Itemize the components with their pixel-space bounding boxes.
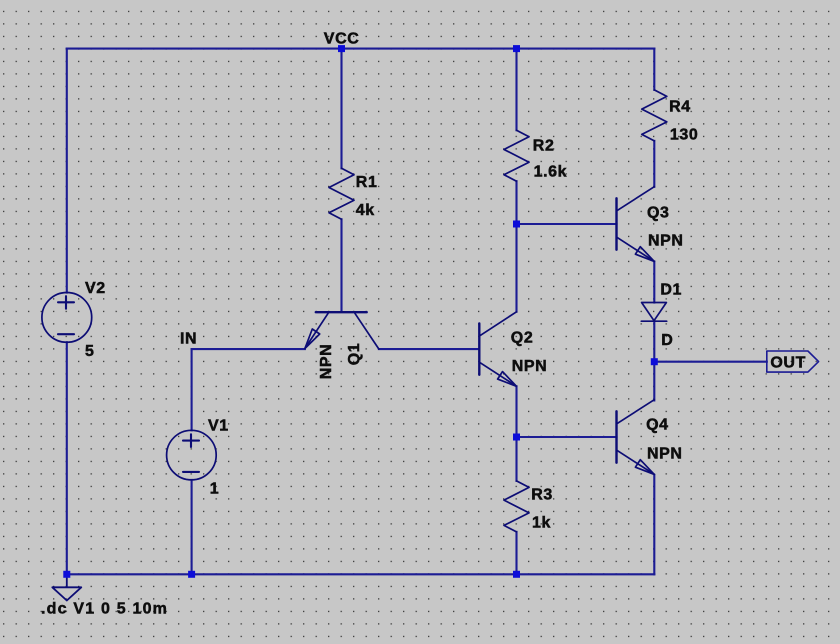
svg-text:R2: R2 [533, 137, 555, 154]
resistor R1 [329, 168, 354, 219]
svg-text:NPN: NPN [647, 445, 683, 462]
svg-text:5: 5 [85, 343, 95, 360]
wire left rail upper [66, 49, 68, 293]
resistor R3 [504, 481, 529, 532]
svg-text:Q3: Q3 [647, 205, 670, 222]
wire Q3 emitter to D1 [653, 262, 655, 303]
junction Q4 base node [513, 434, 520, 441]
port OUT outline [767, 351, 819, 372]
svg-text:130: 130 [670, 126, 699, 143]
wire Q3 base [517, 223, 617, 225]
transistor Q1 body [316, 311, 367, 313]
svg-text:R4: R4 [669, 98, 691, 115]
wire bottom rail [67, 573, 655, 575]
wire R1 to Q1 base [340, 219, 342, 311]
voltage source V1 [167, 430, 217, 480]
svg-text:D1: D1 [660, 281, 682, 298]
wire R2 to Q2 collector [515, 181, 517, 312]
svg-text:1: 1 [210, 481, 220, 498]
svg-text:IN: IN [180, 330, 197, 347]
svg-text:NPN: NPN [318, 344, 335, 380]
svg-text:Q1: Q1 [346, 343, 363, 366]
wire OUT [654, 361, 767, 363]
resistor R2 [504, 130, 529, 181]
svg-text:NPN: NPN [648, 233, 684, 250]
svg-text:V2: V2 [85, 280, 106, 297]
transistor Q2 body [478, 323, 480, 374]
wire D1 to Q4 collector [653, 321, 655, 400]
wire left rail lower [66, 342, 68, 574]
svg-text:Q2: Q2 [511, 329, 534, 346]
wire Q2 emitter down [515, 386, 517, 437]
junction ground node [63, 571, 70, 578]
wire R4 to Q3 collector [653, 141, 655, 187]
junction Q3 base node [513, 221, 520, 228]
svg-text:R1: R1 [356, 174, 378, 191]
junction R3 bottom node [513, 571, 520, 578]
svg-text:OUT: OUT [770, 355, 806, 372]
svg-text:D: D [661, 332, 673, 349]
junction V1 bottom node [188, 571, 195, 578]
transistor Q4 body [615, 411, 617, 462]
svg-text:V1: V1 [208, 417, 229, 434]
wire V1 to bottom rail [191, 480, 193, 574]
svg-text:.dc V1 0 5 10m: .dc V1 0 5 10m [41, 601, 168, 618]
wire VCC to R2 [515, 49, 517, 131]
wire IN horizontal [192, 348, 305, 350]
wire top rail VCC [67, 48, 655, 50]
junction VCC-R2 [513, 45, 520, 52]
transistor Q3 body [615, 198, 617, 249]
wire Q1 collector to Q2 base [379, 348, 479, 350]
svg-text:4k: 4k [356, 202, 375, 219]
svg-text:1.6k: 1.6k [534, 164, 568, 181]
wire node to R3 [515, 437, 517, 481]
wire VCC to R4 [653, 49, 655, 90]
voltage source V2 [42, 293, 92, 343]
ground [52, 578, 81, 601]
junction VCC-R1 [338, 45, 345, 52]
wire right bottom riser (Q4 emitter to bottom rail) [653, 475, 655, 574]
svg-text:VCC: VCC [324, 31, 360, 48]
wire Q4 base [517, 436, 617, 438]
wire VCC to R1 [340, 49, 342, 169]
svg-text:R3: R3 [531, 487, 553, 504]
svg-text:Q4: Q4 [646, 417, 669, 434]
junction node D / OUT [651, 358, 658, 365]
wire IN vertical to V1 [191, 349, 193, 430]
wire R3 to bottom rail [515, 532, 517, 574]
resistor R4 [642, 90, 667, 141]
svg-text:NPN: NPN [512, 358, 548, 375]
diode D1 [642, 303, 667, 321]
svg-text:1k: 1k [532, 515, 551, 532]
